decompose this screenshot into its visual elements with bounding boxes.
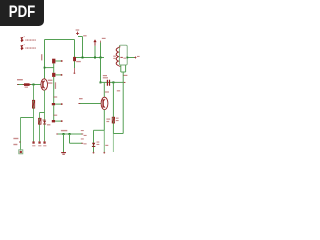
label right pin bbox=[137, 56, 140, 57]
label net 2V bbox=[13, 144, 17, 145]
wire drop top stub bbox=[100, 43, 102, 58]
wire Q1 emitter bbox=[44, 90, 46, 112]
capacitor C6 bbox=[73, 57, 76, 61]
junction link bbox=[44, 67, 46, 69]
wire down to C5 bbox=[53, 105, 55, 120]
wire V2 top bbox=[122, 72, 124, 82]
wire Q2 emitter bbox=[103, 110, 105, 131]
wire Q1 collector riser bbox=[44, 40, 46, 79]
wire branch left down bbox=[93, 130, 95, 152]
capacitor C1 plates bbox=[107, 80, 109, 86]
label net vs bbox=[83, 35, 86, 36]
label LS1 bbox=[113, 56, 116, 57]
pin tick cap row end bbox=[124, 81, 126, 83]
resistor R7 bbox=[32, 100, 34, 108]
wire LS1 bottom U bbox=[121, 65, 126, 72]
diode D2 bbox=[92, 143, 95, 147]
wire C2-C3 link bbox=[53, 63, 55, 72]
label C4 bbox=[54, 96, 58, 97]
pin tick gnd net left bbox=[56, 133, 58, 135]
PDF badge bbox=[0, 0, 44, 26]
pin C5 bbox=[61, 120, 63, 122]
label D2 bbox=[97, 142, 100, 143]
label V2 net bbox=[117, 90, 120, 91]
pad labels bbox=[32, 145, 35, 146]
label GND_IN bbox=[61, 130, 67, 131]
wire split leg right bbox=[44, 113, 46, 142]
wire Q1 base bbox=[18, 84, 41, 86]
pin cross LS1 bbox=[134, 57, 136, 59]
wire supply bus bbox=[75, 57, 105, 59]
pin tick left rail bbox=[19, 141, 21, 143]
label R9 bbox=[116, 118, 119, 119]
label IN bbox=[17, 79, 23, 80]
label R8 bbox=[42, 119, 45, 120]
wire left rail down bbox=[20, 118, 22, 151]
LS1 coil top hook bbox=[118, 46, 120, 49]
wire emitter split bbox=[40, 112, 45, 114]
label emitter net bbox=[106, 119, 110, 120]
pin mark drop top bbox=[100, 41, 102, 43]
label secondary bbox=[123, 75, 127, 76]
wire branch to left rail bbox=[21, 117, 34, 119]
label Q2 emitter pin bbox=[105, 145, 108, 146]
label T1 bbox=[48, 80, 53, 81]
wire rails join bbox=[113, 133, 123, 135]
wire C3 stub bbox=[55, 74, 60, 76]
junction gnd branch2 bbox=[69, 133, 71, 135]
wire supply stub B bbox=[94, 46, 96, 58]
pad pin 2 bbox=[38, 141, 40, 143]
supply symbol +UB A bbox=[76, 32, 79, 35]
label BC547 bbox=[48, 82, 53, 83]
wire cap row bbox=[101, 81, 124, 83]
wire Q2 collector bbox=[103, 82, 105, 97]
wire down to C4 bbox=[53, 77, 55, 103]
diode D1 on right leg bbox=[43, 121, 46, 124]
pin number X2 bbox=[23, 43, 26, 46]
junction base/R7 bbox=[33, 84, 35, 86]
jack X1 bbox=[20, 37, 23, 42]
label LS1 tap bbox=[123, 58, 126, 59]
junction gnd branch1 bbox=[63, 133, 65, 135]
pad pin 1 bbox=[32, 141, 34, 143]
label C6 value bbox=[76, 61, 81, 62]
label pin1 bottom bbox=[84, 135, 87, 136]
pin tick SV1-2 bbox=[81, 142, 83, 144]
wire C2 stub bbox=[55, 60, 61, 62]
label pin2 top bbox=[81, 138, 84, 139]
label net 1,38V bbox=[13, 138, 18, 139]
wire LS1 right pin bbox=[127, 57, 135, 59]
label +UB B bbox=[102, 38, 106, 39]
wire Q2 base bbox=[80, 103, 102, 105]
pin tick Q2 base bbox=[78, 103, 80, 105]
junction C3 bbox=[53, 74, 55, 76]
wire stub below bus for C6 bbox=[74, 58, 76, 69]
junction cap row corner bbox=[100, 81, 102, 83]
wire GND net horizontal bbox=[58, 133, 83, 135]
pin tick SV1-1 bbox=[81, 133, 83, 135]
ground symbol bbox=[61, 153, 66, 155]
pin C3 bbox=[61, 74, 63, 76]
pin C4 bbox=[61, 103, 63, 105]
LS1 coil bottom hook bbox=[118, 65, 120, 68]
wire to ground symbol bbox=[63, 134, 65, 152]
junction bus/drop bbox=[100, 57, 102, 59]
test pad bottom left bbox=[19, 150, 23, 154]
wire right rail V2 bbox=[122, 82, 124, 133]
wire link from Q1 collector bbox=[45, 67, 54, 69]
supply symbol +UB B arrow bbox=[94, 42, 96, 46]
jack X2 bbox=[20, 45, 23, 50]
junction LS1 pin bbox=[126, 57, 128, 59]
wire bus drop to cap row bbox=[100, 58, 102, 83]
label C1 bbox=[103, 75, 107, 76]
wire split leg left bbox=[39, 113, 41, 142]
label pin1 top bbox=[81, 130, 84, 131]
wire emitter continues down bbox=[103, 130, 105, 152]
label C5 bbox=[54, 115, 58, 116]
LS1 coil bbox=[116, 48, 118, 66]
wire emitter branch horizontal bbox=[94, 129, 105, 131]
wire right rail V1 bbox=[112, 82, 114, 133]
label value 22k vertical bbox=[41, 54, 42, 60]
transistor T2 bbox=[101, 97, 108, 109]
wire riser to bus bbox=[74, 40, 76, 58]
pin number X1 bbox=[23, 35, 26, 38]
terminal dot emitter bbox=[103, 152, 105, 154]
capacitor C4 plate bbox=[52, 103, 55, 105]
wire top horizontal net bbox=[45, 39, 75, 41]
label KOPFHOERER1 bbox=[25, 39, 35, 41]
pad pin 3 bbox=[43, 141, 45, 143]
speaker/transformer LS1 box bbox=[119, 45, 127, 65]
pin C6 bbox=[74, 68, 76, 72]
wire R7 branch vertical bbox=[33, 85, 35, 142]
wire C4 stub bbox=[55, 103, 61, 105]
label T2 bbox=[105, 91, 109, 92]
varistor R9 on V1 bbox=[112, 117, 114, 123]
junction bus/arrow bbox=[94, 57, 96, 59]
wire C5 stub bbox=[55, 120, 61, 122]
label pin2 bottom bbox=[84, 143, 87, 144]
junction bus/stubA bbox=[82, 57, 84, 59]
label KOPFHOERER2 bbox=[25, 47, 35, 49]
LS1 inner tap mark bbox=[120, 57, 122, 58]
junction cap row / V1 bbox=[112, 81, 114, 83]
label +UB A bbox=[76, 29, 80, 30]
wire tail down bbox=[112, 134, 114, 153]
resistor R1 bbox=[24, 83, 30, 86]
resistor R8 on left leg bbox=[39, 118, 42, 124]
capacitor C5 plate bbox=[52, 120, 55, 122]
label 100u bbox=[55, 82, 56, 89]
capacitor C2 plate bbox=[52, 59, 55, 64]
pin C2 bbox=[61, 60, 63, 62]
label D1 bbox=[47, 124, 50, 125]
transistor T1 bbox=[41, 79, 48, 90]
label base net bbox=[79, 98, 83, 99]
capacitor C3 plate bbox=[52, 73, 55, 77]
terminal dot branch bbox=[93, 152, 95, 154]
label R1 value bbox=[25, 87, 28, 88]
wire step down bbox=[70, 134, 83, 143]
wire supply stub A bbox=[78, 37, 83, 58]
pin tick base input bbox=[17, 84, 19, 86]
